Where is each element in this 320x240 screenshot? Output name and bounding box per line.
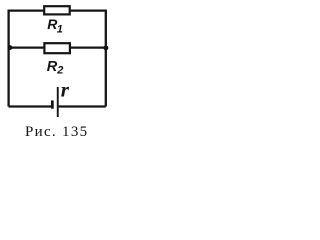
battery negative plate (short thick bar) (51, 100, 54, 108)
svg-text:Рис. 135: Рис. 135 (25, 124, 88, 140)
wire: right vertical (105, 9, 107, 106)
svg-text:1: 1 (57, 24, 63, 36)
wire: bottom right segment from battery (59, 105, 106, 107)
node junction dot left (7, 45, 12, 50)
wire: top branch with R1 (left loop top) (9, 9, 106, 11)
wire: left vertical (7, 9, 9, 106)
svg-text:R: R (47, 59, 58, 75)
battery positive plate (long thin bar) (57, 87, 59, 117)
svg-text:2: 2 (56, 65, 63, 77)
wire: middle branch with R2 (9, 46, 106, 48)
resistor R2 (box) (44, 43, 70, 53)
node junction dot right (103, 45, 108, 50)
wire: bottom left segment to battery (9, 105, 52, 107)
resistor R1 (box) (44, 6, 69, 14)
svg-text:r: r (61, 78, 70, 102)
